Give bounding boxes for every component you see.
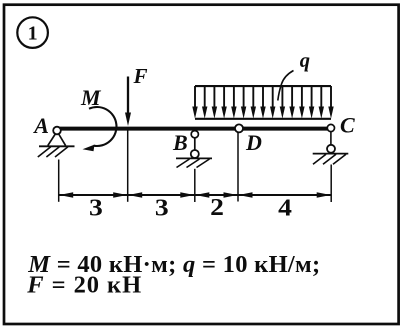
roller support C <box>313 124 349 164</box>
label B <box>172 130 188 155</box>
given values text line 1 <box>27 251 320 278</box>
svg-text:C: C <box>340 112 355 137</box>
label C <box>340 112 355 137</box>
svg-text:q: q <box>300 50 310 72</box>
extension line at D <box>237 132 239 202</box>
extension line at A <box>58 160 60 202</box>
svg-text:F: F <box>133 64 148 88</box>
task number badge "1" <box>17 17 48 48</box>
label q <box>300 50 310 72</box>
svg-text:4: 4 <box>278 194 292 221</box>
svg-text:2: 2 <box>210 194 224 221</box>
svg-text:1: 1 <box>28 23 38 45</box>
label D <box>245 130 262 155</box>
extension line at C <box>330 165 332 203</box>
beam A-B-D-C <box>57 127 331 131</box>
dimension line with arrowheads <box>59 192 332 198</box>
force F arrow <box>125 77 131 127</box>
pin support A <box>38 127 75 157</box>
svg-text:M: M <box>80 85 102 110</box>
svg-text:A: A <box>32 113 49 138</box>
label A <box>32 113 49 138</box>
label F <box>133 64 148 88</box>
dimension label 2 (B-D) <box>210 194 224 221</box>
svg-text:3: 3 <box>155 194 169 221</box>
q leader line <box>278 71 294 101</box>
dimension label 4 (D-C) <box>278 194 292 221</box>
svg-text:3: 3 <box>89 194 103 221</box>
extension line at B <box>194 169 196 202</box>
extension line at F <box>127 130 129 202</box>
hinge D <box>235 124 243 132</box>
dimension label 3 (F-B) <box>155 194 169 221</box>
svg-text:F = 20 кН: F = 20 кН <box>26 271 141 298</box>
roller support B <box>176 131 212 168</box>
dimension label 3 (A-F) <box>89 194 103 221</box>
given values text line 2 <box>26 271 141 298</box>
svg-text:B: B <box>172 130 188 155</box>
moment M arc with arrowhead <box>83 107 117 151</box>
label M <box>80 85 102 110</box>
distributed load q block <box>192 86 333 119</box>
svg-text:D: D <box>245 130 262 155</box>
